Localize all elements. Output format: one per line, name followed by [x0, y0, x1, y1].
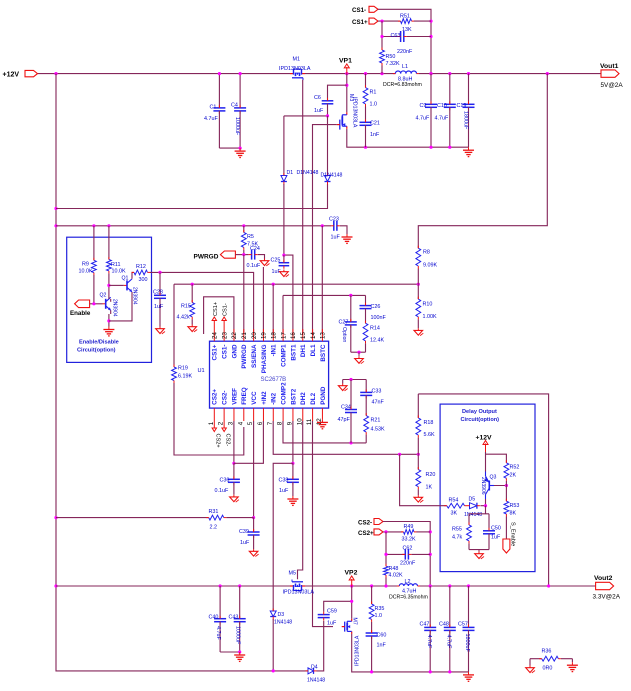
- svg-text:4.42k: 4.42k: [177, 314, 190, 320]
- wire -IN1 to pin 18: [272, 284, 274, 334]
- svg-text:1000uF: 1000uF: [234, 117, 240, 136]
- resistor R18 5.6K: [416, 394, 435, 454]
- wire VP1 switch node rail ch1: [305, 72, 395, 75]
- svg-text:CS1-: CS1-: [223, 303, 229, 316]
- svg-text:C4: C4: [231, 103, 238, 109]
- ground at ch2 compensation: [338, 384, 347, 391]
- wire VP1 down to M3 drain: [345, 74, 348, 113]
- svg-text:CS1-: CS1-: [222, 345, 229, 359]
- svg-text:22: 22: [231, 332, 238, 339]
- node +12V junction at left vertical: [54, 72, 57, 75]
- ground below R14 C27: [355, 356, 364, 363]
- ground at C23: [342, 234, 353, 243]
- wire Vout1 rail: [419, 72, 601, 75]
- svg-text:C25: C25: [271, 258, 281, 264]
- svg-text:C36: C36: [220, 478, 230, 484]
- node +12V delay arrow: [476, 435, 493, 453]
- svg-text:1uF: 1uF: [331, 235, 341, 241]
- svg-text:C57: C57: [458, 622, 468, 628]
- svg-text:C38: C38: [279, 478, 289, 484]
- svg-text:1N4148: 1N4148: [307, 678, 325, 684]
- wire VCC pin 5 column: [252, 421, 255, 519]
- svg-text:5.6K: 5.6K: [424, 432, 435, 438]
- ground below C43: [234, 652, 245, 661]
- svg-text:CS1+: CS1+: [212, 344, 219, 360]
- wire CS1+ node down through R50 column: [380, 21, 383, 50]
- transistor M1 IPD13N03LA high-side FET ch1: [279, 57, 311, 81]
- wire DL2 pin 11 to M7 gate: [313, 421, 334, 627]
- ground in delay circuit: [475, 552, 484, 559]
- svg-text:D1: D1: [287, 170, 294, 176]
- wire R12 to SS/ENA pin 20: [150, 271, 254, 334]
- svg-text:1.00K: 1.00K: [423, 314, 437, 320]
- svg-text:CS1+: CS1+: [352, 19, 368, 26]
- resistor R21 4.53K: [364, 413, 385, 443]
- capacitor C36 0.1uF VREF bypass: [215, 463, 240, 494]
- capacitor C4 1000uF input cap ch1: [219, 72, 246, 150]
- svg-text:C10: C10: [437, 103, 447, 109]
- svg-text:C28: C28: [153, 290, 163, 296]
- diode D2 1N4148: [321, 116, 343, 185]
- capacitor C25 1uF: [271, 255, 290, 275]
- svg-text:12.4K: 12.4K: [370, 338, 384, 344]
- transistor Q1 2N3904: [122, 276, 138, 305]
- svg-text:C48: C48: [439, 622, 449, 628]
- resistor R20 1K: [416, 454, 435, 495]
- ground in enable circuit: [103, 327, 114, 336]
- box Enable/Disable Circuit option: [67, 237, 152, 362]
- wire VREF net pin 3: [232, 421, 235, 465]
- svg-text:1000uF: 1000uF: [235, 626, 241, 645]
- svg-text:1800uF: 1800uF: [464, 634, 470, 653]
- resistor R1 1.0 snubber ch1: [363, 74, 377, 108]
- inductor L1 8.8uH: [383, 64, 422, 88]
- svg-text:R5: R5: [247, 234, 254, 240]
- wire Enable to Q2 base: [90, 302, 103, 305]
- svg-text:2K: 2K: [510, 473, 517, 479]
- svg-text:R11: R11: [111, 262, 121, 268]
- svg-text:33.2K: 33.2K: [402, 537, 416, 543]
- port CS2+ middle: [358, 529, 383, 537]
- capacitor C6 1uF bootstrap ch1: [314, 85, 347, 116]
- svg-text:Q2: Q2: [100, 293, 107, 299]
- svg-text:9.09K: 9.09K: [423, 263, 437, 269]
- ground left of R36: [526, 659, 535, 673]
- wire VREF to +IN2 pin 6: [234, 421, 264, 463]
- port CS1- top: [352, 6, 378, 14]
- svg-text:R54: R54: [449, 498, 459, 504]
- svg-text:1uF: 1uF: [154, 304, 164, 310]
- svg-text:IPD13N03LA: IPD13N03LA: [355, 635, 361, 666]
- wire compensation ch2 top rail: [343, 378, 367, 384]
- capacitor C50 1uF: [483, 526, 501, 550]
- diode D5 1N4148: [464, 497, 482, 519]
- svg-text:U1: U1: [198, 368, 205, 374]
- svg-text:R12: R12: [136, 264, 146, 270]
- svg-text:1N4148: 1N4148: [274, 620, 292, 626]
- svg-text:C21: C21: [370, 121, 380, 127]
- wire +12V lower branch (VCC rail to C23): [56, 224, 331, 227]
- ground right of R36: [567, 659, 578, 672]
- svg-text:Q3: Q3: [490, 475, 497, 481]
- wire +12V upper branch to D2: [56, 184, 328, 209]
- svg-text:1N4148: 1N4148: [464, 512, 482, 518]
- capacitor C63 220nF: [382, 31, 431, 55]
- svg-text:PWRGD: PWRGD: [194, 254, 219, 261]
- wire D4 to C59 bottom: [317, 621, 324, 671]
- transistor Q2 2N3904: [100, 293, 118, 317]
- svg-text:+12V: +12V: [3, 72, 20, 79]
- wire COMP1 net: [283, 294, 366, 334]
- svg-text:10.0K: 10.0K: [112, 269, 126, 275]
- wire Vout2 rail: [420, 584, 596, 587]
- svg-text:Vout2: Vout2: [594, 575, 613, 582]
- svg-text:Vout1: Vout1: [600, 63, 619, 70]
- svg-text:C1: C1: [210, 105, 217, 111]
- svg-text:220nF: 220nF: [400, 561, 416, 567]
- wire M3 gate to DL1: [313, 125, 337, 334]
- port S_Enable: [503, 522, 516, 553]
- port PWRGD: [194, 251, 236, 261]
- svg-text:7.32K: 7.32K: [386, 61, 400, 67]
- svg-text:D4: D4: [311, 665, 318, 671]
- svg-text:R8: R8: [423, 250, 430, 256]
- resistor R31 2.2 VCC filter: [56, 509, 254, 531]
- svg-text:R48: R48: [389, 566, 399, 572]
- svg-text:8K: 8K: [510, 511, 517, 517]
- diode D4 1N4148: [306, 665, 326, 684]
- svg-text:19: 19: [261, 332, 268, 339]
- port CS2- arrow below pin 2: [222, 421, 231, 446]
- wire CS1- to right column: [378, 9, 433, 75]
- ground below C38: [287, 496, 298, 505]
- svg-text:BSTC: BSTC: [320, 344, 327, 362]
- svg-text:300: 300: [139, 277, 148, 283]
- wire D1 to BST1 pin and C25: [282, 184, 293, 334]
- transistor M7 IPD13N03LA low-side FET ch2: [342, 618, 361, 667]
- wire ch1 power ground rail: [347, 129, 469, 149]
- svg-text:C26: C26: [371, 304, 381, 310]
- capacitor C34 47pF: [338, 380, 358, 443]
- svg-text:20: 20: [251, 332, 258, 339]
- svg-text:R14: R14: [370, 326, 380, 332]
- ground ch2 output: [463, 672, 474, 681]
- svg-text:10.0K: 10.0K: [79, 268, 93, 274]
- svg-text:13: 13: [320, 332, 327, 339]
- svg-text:100nF: 100nF: [371, 315, 387, 321]
- resistor R36 0R0 ground tie: [530, 649, 572, 672]
- svg-text:IPD13N03LA: IPD13N03LA: [352, 97, 358, 128]
- svg-text:1uF: 1uF: [327, 621, 337, 627]
- port CS2+ arrow below pin 1: [212, 421, 221, 448]
- svg-text:1nF: 1nF: [370, 132, 380, 138]
- svg-text:+IN2: +IN2: [261, 391, 268, 405]
- svg-text:D3: D3: [278, 612, 285, 618]
- wire GND pin 22 route: [204, 297, 234, 334]
- svg-text:R31: R31: [209, 509, 219, 515]
- svg-text:DL1: DL1: [310, 344, 317, 356]
- capacitor C40 4.7uF input ch2: [209, 586, 227, 652]
- svg-text:6.19K: 6.19K: [178, 374, 192, 380]
- svg-text:C6: C6: [314, 95, 321, 101]
- capacitor C27 Option: [339, 295, 357, 352]
- resistor R49 33.2K: [401, 524, 430, 543]
- node VP2 power arrow: [345, 570, 358, 587]
- svg-text:Delay Output: Delay Output: [462, 409, 497, 415]
- inductor L2 4.7uH: [389, 579, 428, 601]
- IC U1 SC2677B: [198, 329, 329, 425]
- resistor R10 1.00K: [416, 284, 437, 328]
- svg-text:Option: Option: [341, 327, 347, 342]
- port CS1+ arrow above pin 24: [212, 302, 219, 329]
- svg-text:0.1uF: 0.1uF: [215, 488, 229, 494]
- svg-text:2N3906: 2N3906: [480, 477, 486, 495]
- wire CS2+ node: [383, 530, 404, 533]
- wire ch2 power ground rail: [352, 634, 469, 674]
- wire -IN1 feedback net: [174, 283, 420, 286]
- svg-text:C23: C23: [329, 216, 339, 222]
- svg-text:1K: 1K: [426, 485, 433, 491]
- wire Q1 emitter return: [109, 292, 132, 321]
- ground below C36: [230, 495, 239, 502]
- svg-text:4.7uF: 4.7uF: [416, 116, 430, 122]
- node VP1 power arrow: [339, 57, 352, 73]
- svg-text:SS/ENA: SS/ENA: [251, 344, 258, 368]
- svg-text:17: 17: [280, 332, 287, 339]
- wire CS2- to right column: [383, 522, 432, 587]
- svg-text:L2: L2: [405, 579, 411, 585]
- svg-text:21: 21: [241, 332, 248, 339]
- svg-text:+12V: +12V: [476, 435, 493, 442]
- wire -IN2 net pin 7 to divider: [273, 421, 420, 456]
- port +12V: [3, 70, 38, 78]
- svg-text:14: 14: [310, 332, 317, 339]
- svg-text:2.2: 2.2: [210, 525, 218, 531]
- svg-text:Enable: Enable: [70, 310, 91, 317]
- transistor M5 IPD13N03LA high-side FET ch2: [283, 571, 315, 596]
- resistor R11 10.0K: [107, 226, 126, 295]
- resistor R51 13K: [398, 14, 431, 33]
- svg-text:1uF: 1uF: [491, 535, 501, 541]
- svg-text:1uF: 1uF: [314, 108, 324, 114]
- port CS1- arrow above pin 23: [222, 303, 229, 329]
- svg-text:COMP1: COMP1: [281, 344, 288, 367]
- svg-text:C63: C63: [391, 33, 401, 39]
- svg-text:4.7uF: 4.7uF: [215, 626, 221, 640]
- wire delay ground node: [469, 550, 489, 552]
- svg-text:M1: M1: [293, 57, 301, 63]
- svg-text:4.02K: 4.02K: [389, 573, 403, 579]
- svg-text:4.7uF: 4.7uF: [446, 635, 452, 649]
- wire BST1 jog to D1: [284, 114, 329, 117]
- svg-text:D5: D5: [469, 497, 476, 503]
- wire Vout1 feedback to R8: [418, 74, 547, 249]
- port CS2- middle: [358, 519, 383, 527]
- resistor R55 4.7k: [452, 522, 471, 549]
- wire BSTC column to pin 13: [321, 226, 323, 334]
- svg-text:16: 16: [290, 332, 297, 339]
- svg-text:4.53K: 4.53K: [371, 427, 385, 433]
- svg-text:VP1: VP1: [339, 57, 352, 64]
- svg-text:CS2+: CS2+: [358, 530, 374, 537]
- wire delay circuit input: [400, 454, 447, 505]
- svg-text:CS2-: CS2-: [222, 390, 229, 404]
- svg-text:C19: C19: [457, 103, 467, 109]
- svg-text:C40: C40: [209, 615, 219, 621]
- port CS1+ top: [352, 18, 378, 26]
- resistor R12 300: [132, 264, 151, 283]
- ground below C39: [249, 549, 258, 556]
- svg-text:R49: R49: [404, 524, 414, 530]
- svg-text:PHASING: PHASING: [261, 344, 268, 373]
- wire Q1 collector to R12: [132, 272, 134, 278]
- svg-text:4.7k: 4.7k: [452, 535, 462, 541]
- svg-text:1800uF: 1800uF: [463, 111, 469, 130]
- ground below C25: [280, 270, 289, 277]
- svg-text:Q1: Q1: [122, 276, 129, 282]
- wire M1 gate to DH1: [302, 80, 304, 334]
- capacitor C9 4.7uF output ch1: [416, 74, 438, 148]
- svg-text:R15: R15: [181, 304, 191, 310]
- resistor R53 8K: [504, 486, 519, 540]
- svg-text:PWRGD: PWRGD: [241, 344, 248, 369]
- svg-text:BST2: BST2: [290, 388, 297, 405]
- wire PWRGD node: [235, 253, 248, 256]
- port Vout1 5V@2A: [600, 63, 623, 89]
- wire DH2 pin 10 to M5 gate: [298, 421, 303, 579]
- svg-text:4.7uF: 4.7uF: [435, 116, 449, 122]
- svg-text:C60: C60: [377, 633, 387, 639]
- svg-text:R55: R55: [452, 527, 462, 533]
- svg-text:1uF: 1uF: [240, 540, 250, 546]
- svg-text:SC2677B: SC2677B: [261, 377, 287, 383]
- svg-text:C43: C43: [229, 615, 239, 621]
- svg-text:R51: R51: [400, 14, 410, 20]
- ground PGND pin 12: [317, 408, 328, 429]
- wire +12V rail from input port to M1 drain: [37, 73, 290, 75]
- ground below R10: [414, 328, 423, 335]
- svg-text:1.0: 1.0: [370, 102, 378, 108]
- wire COMP1 compensation ground node: [351, 351, 366, 357]
- svg-text:220nF: 220nF: [397, 49, 413, 55]
- capacitor C47 4.7uF output ch2: [420, 586, 437, 672]
- svg-text:C24: C24: [250, 246, 260, 252]
- svg-text:BST1: BST1: [290, 344, 297, 361]
- svg-text:1uF: 1uF: [279, 488, 289, 494]
- svg-text:R35: R35: [375, 606, 385, 612]
- capacitor C48 4.7uF output ch2: [439, 586, 456, 672]
- wire +12V rail ch2 to M5: [56, 584, 290, 587]
- wire VP2 switch node rail ch2: [305, 584, 399, 587]
- svg-text:C33: C33: [372, 389, 382, 395]
- svg-text:COMP2: COMP2: [281, 382, 288, 405]
- svg-text:DCR=6.35mohm: DCR=6.35mohm: [389, 595, 428, 601]
- svg-text:R36: R36: [542, 649, 552, 655]
- svg-text:Circuit(option): Circuit(option): [461, 417, 500, 423]
- wire Q2 emitter to ground: [107, 295, 110, 327]
- svg-text:3.3V@2A: 3.3V@2A: [593, 594, 621, 601]
- svg-text:47pF: 47pF: [338, 417, 351, 423]
- resistor R19 6.19K: [172, 284, 244, 455]
- capacitor C60 1nF snubber ch2: [366, 622, 387, 672]
- capacitor C39 1uF VCC bypass: [239, 518, 260, 550]
- resistor R54 3K: [444, 498, 467, 517]
- capacitor C19 1800uF output ch1: [457, 74, 475, 148]
- resistor R14 12.4K: [363, 321, 384, 353]
- svg-text:R21: R21: [371, 418, 381, 424]
- wire PHASING pin 19 to ground: [262, 267, 264, 334]
- svg-text:M5: M5: [289, 571, 297, 577]
- wire Q3 collector to R55 C50: [469, 499, 489, 531]
- wire PWRGD to pin 21: [243, 255, 245, 334]
- port Enable: [70, 300, 91, 317]
- svg-text:GND: GND: [231, 344, 238, 358]
- ground ch1 output: [463, 147, 474, 156]
- port Vout2 3.3V@2A: [593, 575, 621, 601]
- resistor R35 1.0 snubber ch2: [369, 586, 384, 622]
- svg-text:C9: C9: [420, 103, 427, 109]
- svg-text:FREQ: FREQ: [241, 387, 248, 405]
- capacitor C38 1uF: [279, 463, 299, 496]
- svg-text:2N3904: 2N3904: [112, 299, 118, 317]
- svg-text:1nF: 1nF: [377, 643, 387, 649]
- svg-text:3K: 3K: [451, 511, 458, 517]
- svg-text:CS2-: CS2-: [358, 520, 372, 527]
- ground at C24 and PHASING: [260, 259, 269, 266]
- wire +12V left vertical distribution x=56: [54, 74, 307, 671]
- svg-text:S_Enable: S_Enable: [510, 522, 516, 546]
- capacitor C26 100nF: [360, 295, 387, 323]
- svg-text:23: 23: [221, 332, 228, 339]
- capacitor C33 47nF: [360, 380, 384, 416]
- svg-text:R18: R18: [424, 420, 434, 426]
- resistor R15 4.42k: [177, 284, 195, 324]
- ground below C28: [156, 327, 165, 334]
- capacitor C62 220nF: [386, 546, 430, 567]
- capacitor C57 1800uF output ch2: [458, 586, 475, 672]
- svg-text:R50: R50: [386, 54, 396, 60]
- svg-text:0R0: 0R0: [543, 666, 553, 672]
- svg-text:1.0: 1.0: [375, 613, 383, 619]
- wire Vout2 feedback to R18: [418, 394, 548, 586]
- svg-text:4.7uF: 4.7uF: [204, 116, 218, 122]
- svg-text:CS2+: CS2+: [212, 389, 219, 405]
- svg-text:15: 15: [300, 332, 307, 339]
- svg-text:VP2: VP2: [345, 570, 358, 577]
- wire +12V to Q3 emitter and R52: [486, 452, 507, 472]
- wire BST2 to D3: [273, 463, 293, 611]
- svg-text:CS1-: CS1-: [352, 7, 366, 14]
- capacitor C23 1uF BSTC decoupling: [329, 216, 347, 240]
- transistor M3 IPD13N03LA low-side FET ch1: [337, 94, 358, 130]
- svg-text:IPD13N03LA: IPD13N03LA: [279, 66, 311, 72]
- box Delay Output Circuit option: [440, 404, 535, 571]
- svg-text:D1N4148: D1N4148: [321, 173, 343, 179]
- svg-text:C47: C47: [420, 622, 430, 628]
- svg-text:R1: R1: [370, 90, 377, 96]
- svg-text:CS2+: CS2+: [215, 434, 221, 448]
- diode D1 1N4148: [281, 116, 319, 185]
- wire VP2 down to M7 drain: [350, 586, 353, 619]
- wire COMP2 net pin 8: [283, 421, 366, 445]
- svg-text:C34: C34: [341, 405, 351, 411]
- svg-text:DH1: DH1: [300, 344, 307, 357]
- svg-text:DH2: DH2: [300, 392, 307, 405]
- svg-text:VREF: VREF: [231, 388, 238, 405]
- resistor R50 7.32K: [380, 48, 400, 74]
- svg-text:L1: L1: [402, 64, 408, 70]
- svg-text:R20: R20: [426, 472, 436, 478]
